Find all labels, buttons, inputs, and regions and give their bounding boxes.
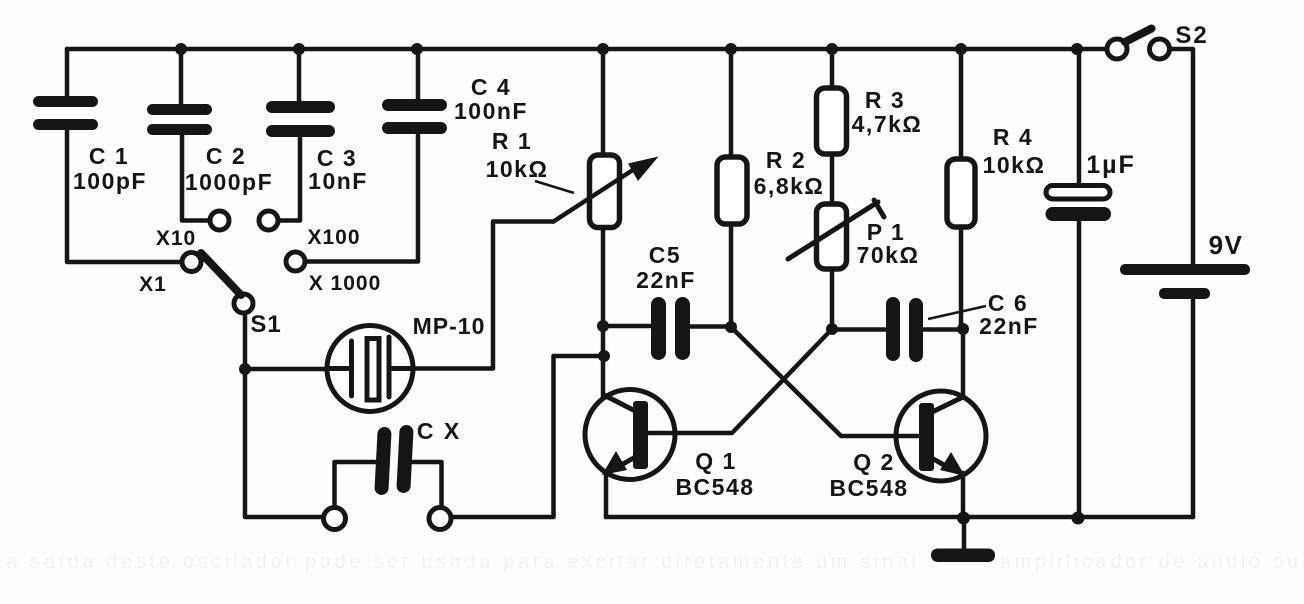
wire Q2 emitter to rail xyxy=(961,473,966,517)
wire Q2 collector lead xyxy=(961,329,966,396)
label Q1 xyxy=(675,448,754,500)
junction 1uF / ground rail node xyxy=(1072,512,1085,525)
C6 label leader line xyxy=(928,306,986,319)
switch S1 arm xyxy=(201,253,241,295)
wire electrolytic bottom lead to ground rail xyxy=(1077,220,1082,517)
wire CX right terminal riser to Q1 collector node xyxy=(451,356,603,517)
junction S1 pole / MP-10 node xyxy=(239,363,251,375)
faint print bleed-through at page bottom xyxy=(6,551,1298,573)
wire battery minus down xyxy=(1191,299,1196,517)
wire C4 top lead xyxy=(416,49,421,99)
junction C2 top node xyxy=(175,43,187,55)
switch S1 terminal X10 xyxy=(210,211,229,230)
R1 label leader line xyxy=(535,181,574,193)
junction 1uF top node xyxy=(1071,43,1083,55)
svg-text:C X: C X xyxy=(417,418,461,444)
junction Q1 collector / CX node xyxy=(598,350,610,362)
svg-text:S1: S1 xyxy=(250,311,281,338)
wire R1 bottom lead to Q1 collector xyxy=(601,227,606,397)
wire R4 top lead xyxy=(959,49,964,159)
svg-text:100nF: 100nF xyxy=(454,98,528,124)
transistor Q1 BC548 xyxy=(585,390,675,480)
wire S2 to battery plus xyxy=(1169,49,1193,264)
wire cross-coupling C5 node to Q2 base xyxy=(731,327,918,436)
svg-text:C5: C5 xyxy=(649,242,681,268)
label C2 xyxy=(185,143,273,195)
CX left terminal xyxy=(324,508,346,530)
wire R3 top lead xyxy=(830,49,835,88)
wire C3 top lead xyxy=(297,49,302,101)
svg-text:6,8kΩ: 6,8kΩ xyxy=(754,173,825,199)
capacitor C1 plates xyxy=(33,96,98,130)
wire R2 top lead xyxy=(729,49,734,157)
svg-text:X1: X1 xyxy=(139,273,167,296)
wire C2 top lead xyxy=(179,49,184,104)
label P1 xyxy=(857,219,920,268)
crystal MP-10 xyxy=(327,326,413,412)
junction P1 / C6 / Q1 base node xyxy=(826,323,838,335)
capacitor C2 plates xyxy=(147,104,212,135)
wire cross-coupling C6 node to Q1 base xyxy=(649,329,832,433)
svg-text:10kΩ: 10kΩ xyxy=(983,152,1046,178)
label C6 xyxy=(979,290,1039,339)
svg-text:Q 2: Q 2 xyxy=(853,449,895,475)
ground symbol xyxy=(931,549,995,563)
resistor R3 4.7k body xyxy=(817,88,847,154)
svg-text:C 2: C 2 xyxy=(206,143,246,169)
svg-text:X 1000: X 1000 xyxy=(309,272,382,295)
label Q2 xyxy=(829,449,908,501)
svg-text:C 1: C 1 xyxy=(89,143,129,169)
svg-text:10kΩ: 10kΩ xyxy=(486,156,549,182)
switch S1 terminal X1 xyxy=(182,253,201,272)
svg-text:1000pF: 1000pF xyxy=(185,169,273,195)
wire R1 top lead xyxy=(601,49,606,155)
svg-text:R 1: R 1 xyxy=(492,128,532,154)
wire S1 pole down and to CX left terminal xyxy=(245,313,323,517)
svg-text:amplificador de áudio ou: amplificador de áudio ou xyxy=(1000,551,1298,573)
resistor R4 10k body xyxy=(947,159,975,227)
label C5 xyxy=(636,242,696,293)
svg-text:70kΩ: 70kΩ xyxy=(857,242,920,268)
svg-text:9V: 9V xyxy=(1209,230,1244,260)
svg-text:BC548: BC548 xyxy=(675,474,754,500)
svg-text:R 4: R 4 xyxy=(993,124,1033,150)
capacitor C4 plates xyxy=(382,99,447,134)
svg-text:4,7kΩ: 4,7kΩ xyxy=(852,111,923,137)
label C3 xyxy=(308,145,368,194)
svg-text:R 2: R 2 xyxy=(766,147,806,173)
switch S1 terminal X1000 xyxy=(286,252,305,271)
ground stub xyxy=(962,517,967,549)
svg-text:10nF: 10nF xyxy=(308,168,368,194)
capacitor C6 plates xyxy=(886,297,923,362)
wire R4 bottom lead to node C6-right xyxy=(959,227,964,329)
junction R2 / C5 / Q2 base node xyxy=(725,321,737,333)
switch S2 left contact xyxy=(1107,39,1127,59)
wire C5 right lead xyxy=(690,324,731,329)
label R4 xyxy=(983,124,1046,178)
battery 9V positive plate xyxy=(1120,264,1250,275)
wire C6 left lead xyxy=(832,327,885,332)
switch S1 pole xyxy=(234,294,253,313)
junction Q1 collector / C5 node xyxy=(597,320,609,332)
svg-text:BC548: BC548 xyxy=(829,475,908,501)
wire C4 bottom lead to X1000 terminal xyxy=(306,135,418,262)
label R1 xyxy=(486,128,549,182)
capacitor C5 plates xyxy=(651,297,690,360)
label R2 xyxy=(754,147,825,199)
R1 wiper arrow xyxy=(554,157,659,222)
switch S2 arm xyxy=(1125,29,1152,43)
svg-text:100pF: 100pF xyxy=(73,168,147,194)
junction C3 top node xyxy=(293,43,305,55)
wire CX left plate lead xyxy=(335,462,376,508)
resistor R2 6.8k body xyxy=(717,157,747,224)
junction Q2 emitter / ground rail node xyxy=(957,512,970,525)
svg-text:1µF: 1µF xyxy=(1086,151,1136,179)
wire R3 to P1 xyxy=(830,154,835,204)
wire C5 left lead xyxy=(603,324,650,329)
junction R1 top node xyxy=(597,43,609,55)
junction R3 top node xyxy=(826,43,838,55)
svg-text:S2: S2 xyxy=(1175,22,1208,49)
junction C4 top node xyxy=(411,43,423,55)
svg-text:Q 1: Q 1 xyxy=(695,448,737,474)
wire C2 bottom lead to X10 terminal xyxy=(182,135,209,221)
switch S1 terminal X100 xyxy=(259,211,278,230)
svg-text:22nF: 22nF xyxy=(979,313,1039,339)
P1 wiper arrow xyxy=(788,200,884,259)
capacitor CX plates xyxy=(374,425,414,496)
svg-text:X100: X100 xyxy=(307,226,360,249)
wire CX right plate lead xyxy=(412,462,442,508)
capacitor C3 plates xyxy=(266,101,335,137)
wire C1 bottom lead to X1 xyxy=(67,130,181,262)
svg-text:X10: X10 xyxy=(156,227,196,250)
svg-text:22nF: 22nF xyxy=(636,267,696,293)
label R3 xyxy=(852,87,923,137)
wire P1 bottom lead to node C6-left xyxy=(830,269,835,329)
switch S2 right contact xyxy=(1150,39,1170,59)
label C4 xyxy=(454,74,528,124)
wire electrolytic top lead xyxy=(1077,49,1082,186)
electrolytic capacitor 1uF plates xyxy=(1046,186,1110,200)
resistor R1 10k body xyxy=(590,155,620,228)
CX right terminal xyxy=(429,508,451,530)
label C1 xyxy=(73,143,147,194)
battery 9V negative plate xyxy=(1159,288,1210,299)
svg-text:MP-10: MP-10 xyxy=(413,313,486,339)
wire bottom ground rail xyxy=(606,515,1193,520)
junction R4 top node xyxy=(955,43,967,55)
wire MP-10 right electrode to R1 wiper bend xyxy=(389,222,554,369)
transistor Q2 BC548 xyxy=(896,391,986,481)
wire top supply rail xyxy=(67,47,1107,52)
svg-text:a saída deste oscilador pode s: a saída deste oscilador pode ser usada p… xyxy=(6,551,916,573)
svg-text:C 4: C 4 xyxy=(471,74,511,100)
junction R4 / C6 / Q2 collector node xyxy=(957,323,969,335)
wire C6 right lead xyxy=(923,327,963,332)
junction R2 top node xyxy=(725,43,737,55)
wire R2 bottom lead to node C5-right xyxy=(729,224,734,327)
potentiometer P1 body xyxy=(817,204,847,269)
svg-text:R 3: R 3 xyxy=(865,87,905,113)
wire S1 node to MP-10 left electrode xyxy=(245,367,351,372)
wire C3 bottom lead to X100 terminal xyxy=(279,138,300,221)
wire Q1 emitter to rail xyxy=(604,473,609,517)
wire C1 top lead xyxy=(65,49,70,96)
